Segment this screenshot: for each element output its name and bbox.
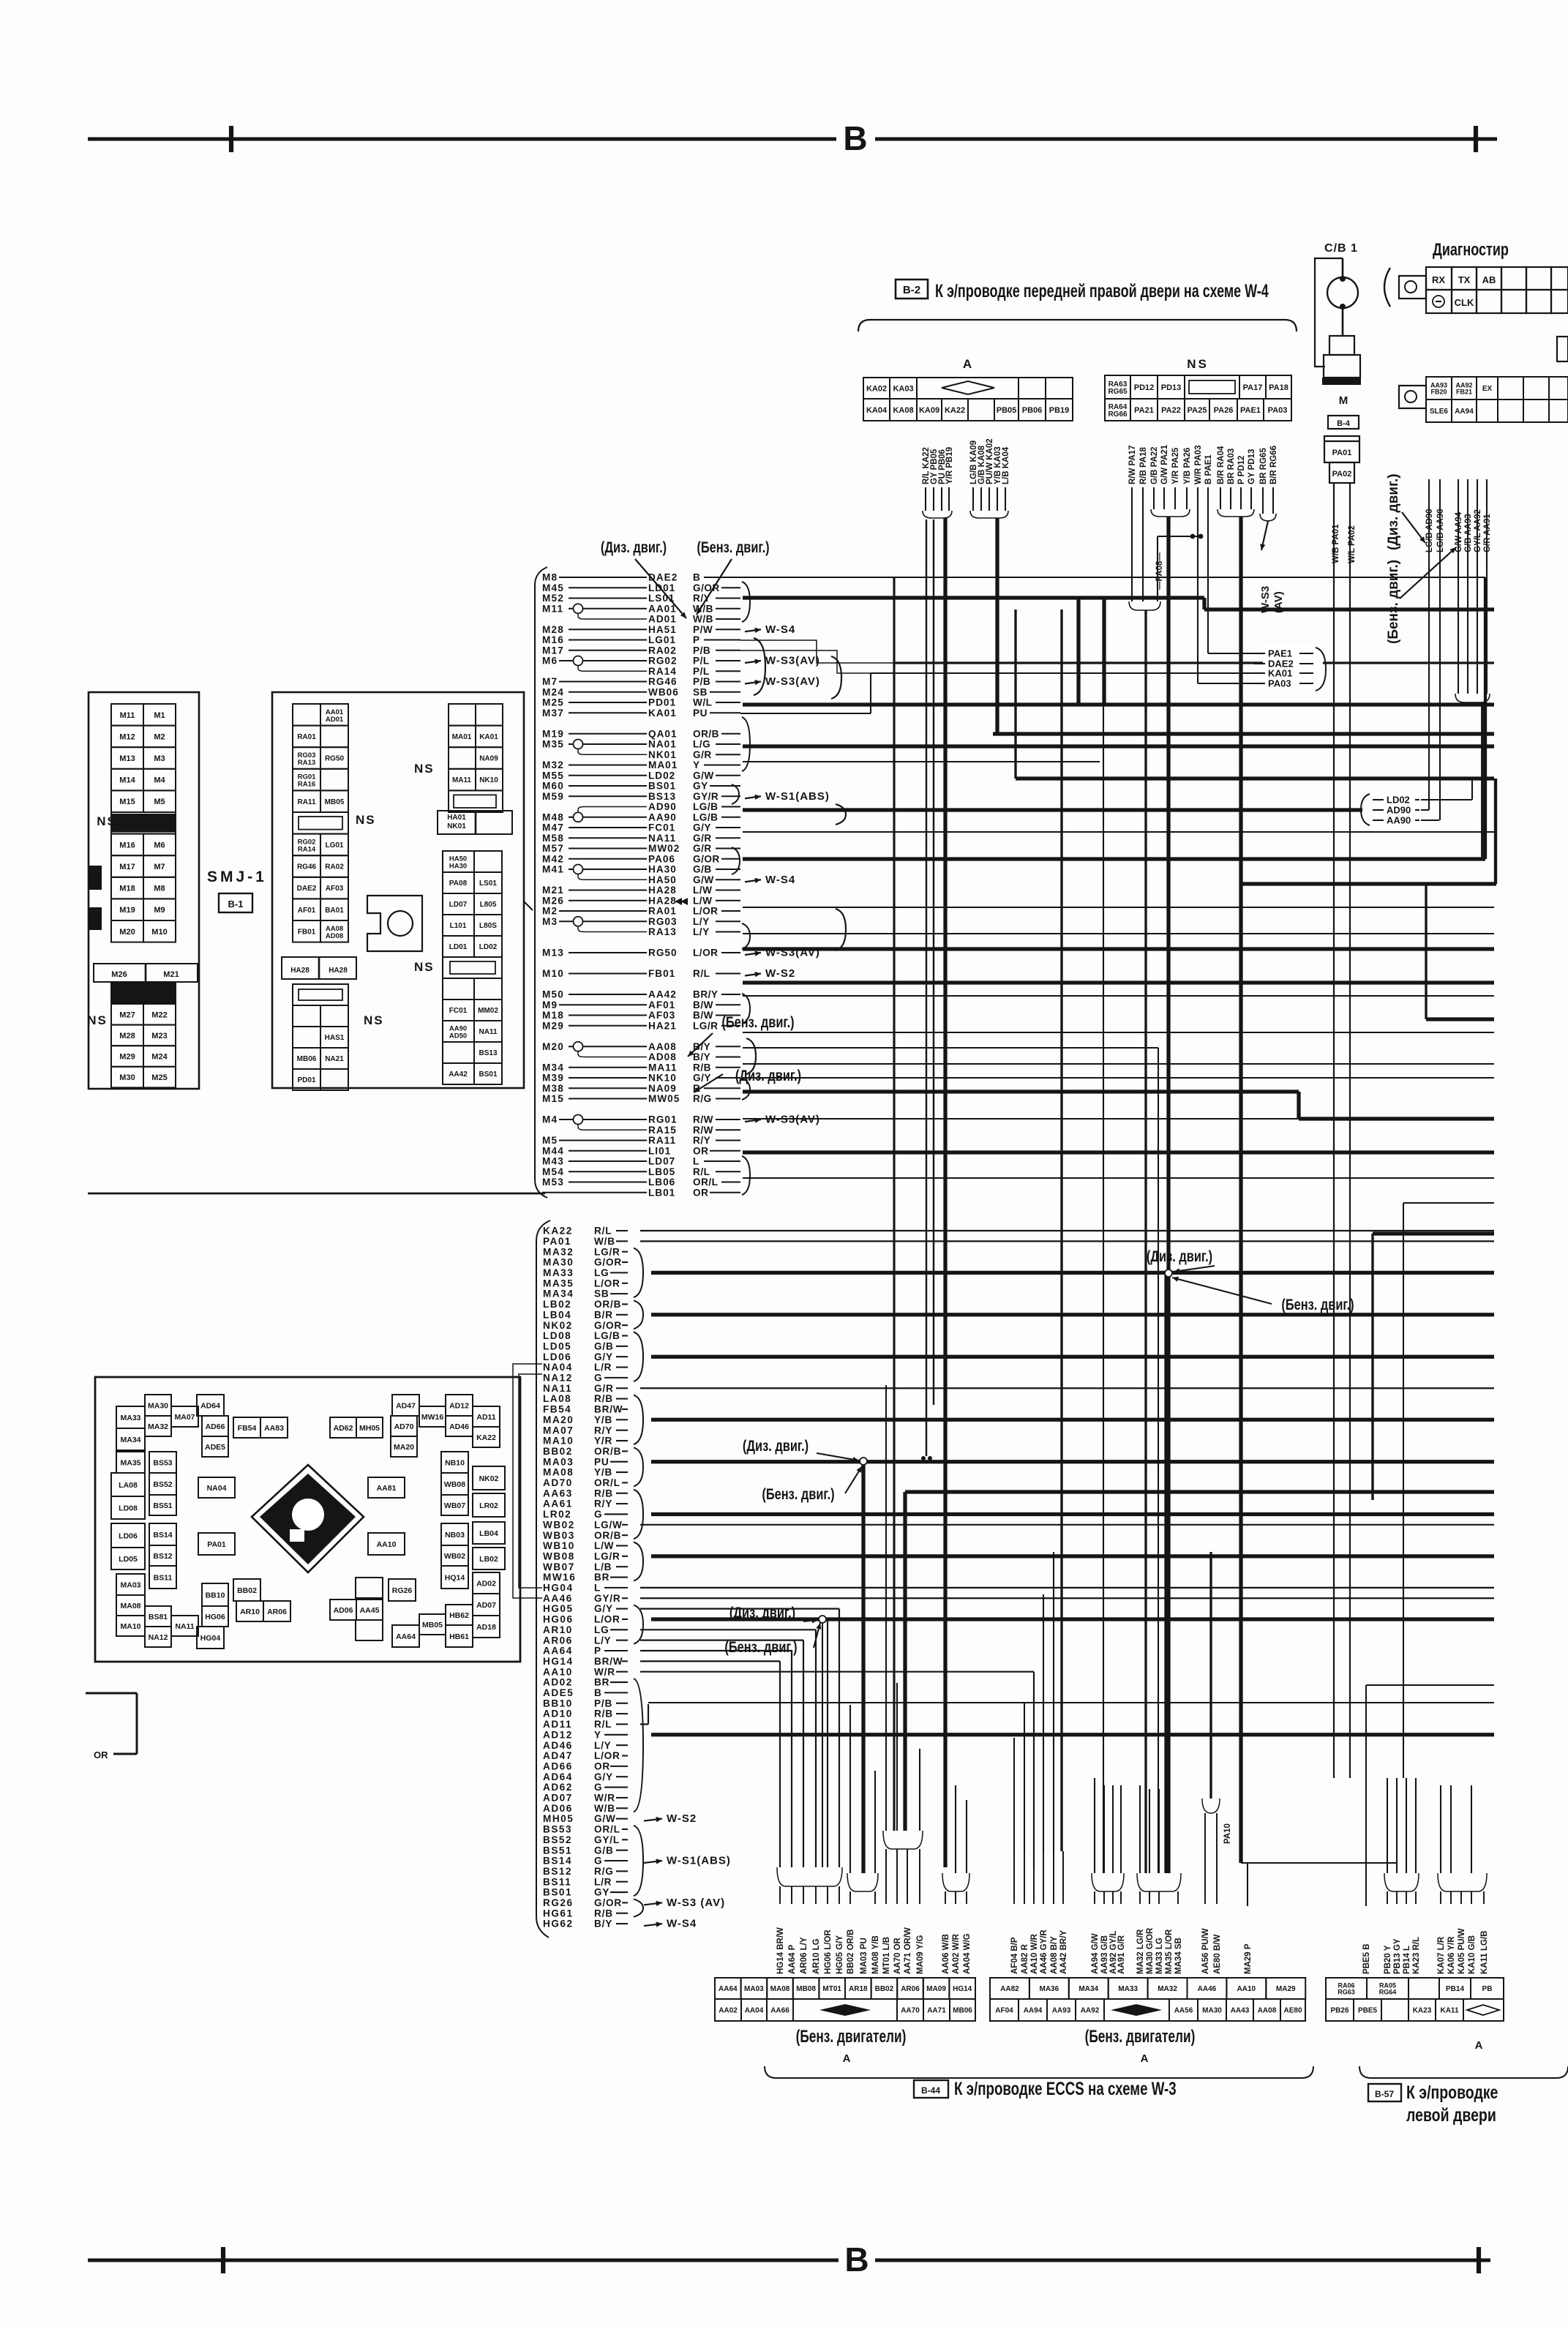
svg-text:A: A	[963, 357, 973, 371]
svg-text:MH05: MH05	[359, 1424, 380, 1433]
svg-text:B/R RG66: B/R RG66	[1269, 446, 1278, 484]
svg-text:HB61: HB61	[449, 1632, 469, 1641]
svg-text:M6: M6	[154, 841, 165, 850]
svg-text:BS52: BS52	[153, 1480, 172, 1489]
svg-text:R/B PA18: R/B PA18	[1139, 446, 1148, 484]
svg-text:AA56 PU/W: AA56 PU/W	[1201, 1928, 1210, 1974]
svg-text:BS14: BS14	[153, 1531, 172, 1539]
svg-text:M3: M3	[154, 754, 165, 763]
svg-text:AF03: AF03	[648, 1010, 675, 1021]
svg-text:M7: M7	[542, 676, 558, 687]
svg-text:KA22: KA22	[476, 1433, 496, 1442]
svg-text:M44: M44	[542, 1145, 564, 1156]
svg-text:LD02: LD02	[479, 943, 498, 951]
svg-text:AA56: AA56	[1174, 2007, 1193, 2015]
svg-text:L/Y: L/Y	[594, 1635, 612, 1646]
svg-text:MW02: MW02	[648, 843, 680, 854]
svg-text:MA03: MA03	[543, 1456, 574, 1467]
svg-text:M1: M1	[154, 711, 165, 720]
svg-text:QA01: QA01	[648, 728, 678, 739]
svg-text:HA28: HA28	[648, 895, 677, 906]
svg-text:GY: GY	[594, 1887, 609, 1898]
svg-text:OR/B: OR/B	[594, 1299, 621, 1310]
svg-text:PD01: PD01	[648, 697, 676, 708]
svg-text:LG01: LG01	[648, 634, 676, 645]
svg-text:MA08: MA08	[120, 1602, 140, 1610]
svg-text:AD10: AD10	[543, 1709, 573, 1719]
svg-text:G/B: G/B	[594, 1845, 614, 1856]
svg-text:M11: M11	[120, 711, 135, 720]
svg-text:W/B: W/B	[594, 1236, 615, 1247]
svg-text:OR: OR	[693, 1187, 708, 1198]
svg-text:AR06: AR06	[267, 1608, 287, 1616]
svg-text:M19: M19	[542, 728, 564, 739]
svg-text:MW05: MW05	[648, 1093, 680, 1104]
svg-text:G: G	[594, 1782, 602, 1793]
svg-text:KA06 Y/R: KA06 Y/R	[1447, 1936, 1456, 1974]
svg-text:M25: M25	[542, 697, 564, 708]
svg-text:MT01 L/B: MT01 L/B	[882, 1937, 891, 1974]
svg-text:M4: M4	[542, 1114, 558, 1125]
svg-text:PB14 L: PB14 L	[1403, 1946, 1411, 1974]
svg-text:—PA08—: —PA08—	[1155, 552, 1164, 590]
svg-text:PB: PB	[1482, 1985, 1493, 1993]
svg-text:RG66: RG66	[1108, 410, 1128, 419]
svg-text:L/OR: L/OR	[693, 948, 718, 959]
svg-text:EX: EX	[1482, 385, 1493, 393]
svg-text:PA25: PA25	[1188, 406, 1207, 415]
svg-text:L/OR: L/OR	[693, 906, 718, 917]
svg-text:PD13: PD13	[1161, 383, 1182, 392]
svg-text:M34: M34	[542, 1062, 564, 1073]
svg-text:NA21: NA21	[325, 1055, 344, 1063]
svg-text:MA33: MA33	[543, 1267, 574, 1278]
svg-text:(Диз. двиг.): (Диз. двиг.)	[735, 1067, 801, 1084]
svg-text:PA01: PA01	[207, 1540, 226, 1549]
svg-text:PB14: PB14	[1446, 1985, 1464, 1993]
svg-text:M18: M18	[119, 885, 135, 893]
svg-text:MA34 SB: MA34 SB	[1174, 1938, 1183, 1974]
svg-text:AA10: AA10	[1237, 1985, 1256, 1993]
svg-text:W-S2: W-S2	[667, 1812, 697, 1825]
svg-text:MA08 Y/B: MA08 Y/B	[871, 1935, 880, 1974]
svg-text:G/B PA22: G/B PA22	[1150, 446, 1159, 484]
svg-text:HA50: HA50	[648, 874, 677, 885]
svg-text:AR10 LG: AR10 LG	[812, 1938, 821, 1974]
svg-text:AA45: AA45	[360, 1606, 380, 1615]
svg-text:Y/R PA25: Y/R PA25	[1171, 447, 1180, 484]
svg-text:R/B: R/B	[594, 1393, 613, 1404]
svg-text:AD01: AD01	[326, 716, 344, 724]
svg-text:LA08: LA08	[543, 1393, 571, 1404]
svg-text:G/R: G/R	[594, 1383, 614, 1394]
svg-text:PB13 GY: PB13 GY	[1393, 1938, 1402, 1974]
svg-text:RG64: RG64	[1379, 1989, 1397, 1996]
svg-text:BS53: BS53	[543, 1824, 572, 1835]
svg-text:AD01: AD01	[648, 614, 677, 625]
svg-text:BB10: BB10	[543, 1698, 573, 1709]
svg-text:HA21: HA21	[648, 1020, 677, 1031]
svg-text:KA05 PU/W: KA05 PU/W	[1458, 1928, 1466, 1974]
svg-text:M17: M17	[119, 863, 135, 871]
svg-text:MA34: MA34	[1079, 1985, 1098, 1993]
svg-text:LS01: LS01	[648, 593, 675, 604]
svg-text:BS01: BS01	[648, 781, 676, 792]
svg-text:(Бенз. двигатели): (Бенз. двигатели)	[796, 2027, 907, 2046]
svg-text:PA01: PA01	[543, 1236, 571, 1247]
svg-text:Y/R PB19: Y/R PB19	[945, 447, 954, 484]
svg-text:NA11: NA11	[543, 1383, 572, 1394]
svg-text:M6: M6	[542, 656, 558, 667]
svg-text:KA23: KA23	[1413, 2007, 1432, 2015]
svg-text:NS: NS	[97, 814, 117, 828]
svg-text:KA01: KA01	[479, 733, 498, 741]
svg-text:AB: AB	[1482, 274, 1496, 285]
svg-text:BS01: BS01	[543, 1887, 572, 1898]
svg-text:AD62: AD62	[334, 1424, 353, 1433]
svg-text:BS53: BS53	[153, 1458, 172, 1467]
svg-text:G/R: G/R	[693, 843, 712, 854]
svg-text:Y/R: Y/R	[594, 1436, 612, 1447]
svg-text:LG/B: LG/B	[693, 811, 718, 822]
svg-text:HA28: HA28	[290, 967, 310, 975]
svg-text:G/B: G/B	[693, 864, 712, 875]
svg-text:SMJ-1: SMJ-1	[207, 869, 267, 885]
svg-text:OR: OR	[594, 1760, 610, 1771]
svg-text:PU: PU	[693, 708, 708, 719]
svg-text:LG/R: LG/R	[594, 1550, 620, 1561]
svg-text:AD90: AD90	[1387, 805, 1411, 816]
svg-text:Y/B: Y/B	[594, 1467, 612, 1478]
svg-text:LD07: LD07	[648, 1156, 675, 1167]
svg-text:AA82: AA82	[1000, 1985, 1019, 1993]
svg-text:AF01: AF01	[648, 1000, 675, 1010]
svg-text:G/OR: G/OR	[693, 853, 720, 864]
svg-text:AA46: AA46	[1198, 1985, 1217, 1993]
svg-text:PB26: PB26	[1330, 2007, 1348, 2015]
svg-text:AD90: AD90	[648, 801, 677, 812]
svg-text:RG26: RG26	[392, 1586, 413, 1595]
svg-text:M27: M27	[119, 1010, 135, 1019]
svg-text:MA35: MA35	[543, 1278, 574, 1289]
svg-text:NA04: NA04	[207, 1484, 227, 1493]
svg-text:MA09 Y/G: MA09 Y/G	[916, 1935, 925, 1974]
svg-text:PA03: PA03	[1268, 406, 1288, 415]
svg-text:NA12: NA12	[149, 1633, 168, 1642]
svg-text:HAS1: HAS1	[325, 1034, 345, 1042]
svg-text:RG50: RG50	[325, 755, 345, 763]
svg-text:AA70: AA70	[901, 2007, 920, 2015]
svg-text:HQ14: HQ14	[445, 1573, 465, 1582]
svg-text:GY: GY	[693, 781, 708, 792]
svg-text:К э/проводке: К э/проводке	[1406, 2082, 1498, 2103]
svg-text:AE80: AE80	[1283, 2007, 1302, 2015]
svg-text:MA32 LG/R: MA32 LG/R	[1136, 1929, 1145, 1974]
svg-text:LD06: LD06	[119, 1531, 138, 1540]
svg-text:AA46 GY/R: AA46 GY/R	[1040, 1929, 1049, 1974]
svg-text:A: A	[1475, 2039, 1483, 2052]
svg-text:MA30: MA30	[148, 1401, 168, 1410]
svg-text:AA01: AA01	[648, 603, 677, 614]
svg-text:B-2: B-2	[903, 284, 920, 296]
svg-text:MA08: MA08	[543, 1467, 574, 1478]
svg-text:AA42: AA42	[648, 989, 677, 1000]
svg-text:MA01: MA01	[452, 733, 472, 741]
svg-text:W/L: W/L	[693, 697, 712, 708]
svg-text:M20: M20	[542, 1041, 564, 1052]
svg-text:(Бенз. двиг.): (Бенз. двиг.)	[697, 539, 769, 555]
svg-text:W-S3(AV): W-S3(AV)	[765, 655, 820, 667]
svg-text:AA94: AA94	[1024, 2007, 1043, 2015]
svg-text:M53: M53	[542, 1177, 564, 1188]
svg-text:W-S4: W-S4	[667, 1918, 697, 1930]
svg-text:G/R: G/R	[693, 833, 712, 844]
svg-text:(Бенз. двиг.): (Бенз. двиг.)	[721, 1013, 794, 1030]
svg-text:B-44: B-44	[921, 2085, 940, 2096]
svg-text:HG04: HG04	[200, 1634, 221, 1643]
svg-text:NA09: NA09	[648, 1083, 677, 1094]
svg-text:PA17: PA17	[1243, 383, 1263, 392]
svg-text:RA13: RA13	[648, 926, 677, 937]
svg-text:NS: NS	[1187, 357, 1209, 371]
svg-text:G/W: G/W	[693, 770, 714, 781]
svg-text:M13: M13	[542, 948, 564, 959]
svg-text:PD01: PD01	[297, 1076, 315, 1084]
svg-text:KA08: KA08	[893, 406, 913, 415]
svg-text:AR06 L/Y: AR06 L/Y	[800, 1937, 809, 1974]
svg-text:B: B	[693, 572, 700, 583]
svg-text:L/R: L/R	[594, 1876, 612, 1887]
svg-text:M24: M24	[542, 686, 564, 697]
svg-text:AD70: AD70	[543, 1477, 573, 1488]
svg-text:MT01: MT01	[822, 1985, 841, 1993]
svg-text:левой двери: левой двери	[1406, 2105, 1496, 2126]
svg-text:MA10: MA10	[543, 1436, 574, 1447]
svg-text:G/OR: G/OR	[594, 1897, 622, 1908]
svg-text:LB02: LB02	[479, 1555, 498, 1564]
svg-text:BB10: BB10	[206, 1591, 225, 1599]
svg-text:M: M	[1339, 394, 1348, 407]
svg-text:RA01: RA01	[297, 733, 316, 741]
svg-text:W/B: W/B	[594, 1803, 615, 1814]
svg-text:(Диз. двиг.): (Диз. двиг.)	[743, 1437, 809, 1454]
svg-text:M48: M48	[542, 811, 564, 822]
svg-text:L/W: L/W	[693, 895, 712, 906]
svg-text:BR/W: BR/W	[594, 1404, 623, 1415]
svg-text:LG/R: LG/R	[594, 1246, 620, 1257]
svg-text:AA10 W/R: AA10 W/R	[1030, 1933, 1039, 1974]
svg-text:HA30: HA30	[648, 864, 677, 875]
svg-text:W-S2: W-S2	[765, 967, 795, 980]
svg-text:AR06: AR06	[901, 1985, 920, 1993]
svg-text:AA10: AA10	[377, 1540, 397, 1549]
svg-text:M32: M32	[542, 760, 564, 770]
svg-text:MA11: MA11	[648, 1062, 678, 1073]
svg-text:MW16: MW16	[543, 1572, 576, 1583]
svg-text:LG: LG	[594, 1624, 609, 1635]
svg-text:RG26: RG26	[543, 1897, 574, 1908]
svg-text:AA42: AA42	[449, 1070, 468, 1079]
svg-text:BR/W: BR/W	[594, 1656, 623, 1667]
svg-text:L/OR: L/OR	[594, 1750, 620, 1761]
svg-text:MA01: MA01	[648, 760, 678, 770]
svg-text:OR/L: OR/L	[693, 1177, 718, 1188]
svg-text:TX: TX	[1458, 274, 1471, 285]
svg-text:HA28: HA28	[648, 885, 677, 896]
svg-text:R/L: R/L	[594, 1226, 612, 1237]
svg-text:WB06: WB06	[648, 686, 679, 697]
svg-text:AA08: AA08	[648, 1041, 677, 1052]
svg-text:PA18: PA18	[1269, 383, 1288, 392]
svg-text:SB: SB	[693, 686, 708, 697]
svg-text:B-57: B-57	[1375, 2089, 1394, 2099]
svg-text:AD02: AD02	[476, 1579, 496, 1588]
svg-text:NA01: NA01	[648, 739, 677, 750]
svg-text:WB07: WB07	[444, 1501, 465, 1510]
svg-text:R/W: R/W	[693, 1125, 713, 1136]
svg-text:MA03: MA03	[120, 1580, 140, 1589]
svg-text:LS01: LS01	[479, 880, 497, 888]
svg-text:MA07: MA07	[543, 1425, 574, 1436]
svg-text:R/L: R/L	[693, 1166, 710, 1177]
svg-text:M28: M28	[119, 1032, 135, 1040]
svg-text:R/Y: R/Y	[594, 1425, 612, 1436]
svg-text:NS: NS	[364, 1013, 384, 1027]
svg-text:P/B: P/B	[693, 676, 710, 687]
svg-text:LD05: LD05	[119, 1555, 138, 1564]
svg-text:NA11: NA11	[479, 1028, 497, 1036]
svg-text:M57: M57	[542, 843, 564, 854]
svg-text:RA01: RA01	[648, 906, 677, 917]
svg-text:M22: M22	[151, 1010, 167, 1019]
svg-text:M5: M5	[542, 1135, 558, 1146]
svg-text:AD02: AD02	[543, 1677, 573, 1688]
svg-text:M15: M15	[542, 1093, 564, 1104]
svg-text:W/B: W/B	[693, 614, 713, 625]
svg-text:MA29 P: MA29 P	[1244, 1943, 1253, 1974]
svg-text:AD06: AD06	[334, 1606, 353, 1615]
svg-text:NK01: NK01	[648, 749, 677, 760]
svg-text:M43: M43	[542, 1156, 564, 1167]
svg-text:OR/B: OR/B	[693, 728, 719, 739]
svg-text:BS81: BS81	[149, 1613, 168, 1621]
svg-text:PA10: PA10	[1223, 1823, 1232, 1844]
svg-text:M59: M59	[542, 791, 564, 802]
svg-text:PA03: PA03	[1268, 678, 1291, 689]
svg-text:M26: M26	[111, 970, 127, 979]
svg-text:BR: BR	[594, 1677, 609, 1688]
svg-text:AR06: AR06	[543, 1635, 573, 1646]
svg-text:MA29: MA29	[1276, 1985, 1296, 1993]
svg-text:AD46: AD46	[449, 1422, 469, 1431]
svg-text:W-S3 (AV): W-S3 (AV)	[667, 1897, 725, 1909]
svg-text:MA20: MA20	[543, 1414, 574, 1425]
svg-text:BS51: BS51	[153, 1501, 172, 1510]
svg-text:AA06 W/B: AA06 W/B	[942, 1934, 950, 1974]
svg-text:AD70: AD70	[394, 1422, 414, 1431]
svg-text:B/W: B/W	[693, 1000, 713, 1010]
svg-text:GY/R: GY/R	[594, 1593, 620, 1604]
svg-text:HG06: HG06	[543, 1614, 574, 1625]
svg-text:HG14 BR/W: HG14 BR/W	[776, 1927, 785, 1974]
svg-text:BR RA03: BR RA03	[1227, 449, 1236, 484]
svg-text:SLE6: SLE6	[1430, 408, 1448, 416]
svg-text:MA33: MA33	[120, 1414, 140, 1422]
svg-text:B-4: B-4	[1337, 419, 1351, 428]
svg-text:MB06: MB06	[297, 1055, 317, 1063]
svg-text:NS: NS	[356, 813, 376, 827]
svg-text:BS52: BS52	[543, 1834, 572, 1845]
svg-text:LD01: LD01	[648, 582, 675, 593]
svg-text:G/OR: G/OR	[594, 1320, 622, 1331]
svg-text:M35: M35	[542, 739, 564, 750]
svg-text:R/G: R/G	[693, 1093, 712, 1104]
svg-text:LG/R: LG/R	[693, 1020, 718, 1031]
svg-text:AA02: AA02	[719, 2007, 738, 2015]
svg-text:G/Y: G/Y	[594, 1771, 613, 1782]
svg-text:FB01: FB01	[648, 968, 675, 979]
svg-text:NK01: NK01	[447, 822, 466, 830]
svg-text:AA66: AA66	[770, 2007, 789, 2015]
svg-text:PA06: PA06	[648, 853, 675, 864]
svg-text:W-S1(ABS): W-S1(ABS)	[667, 1855, 731, 1867]
svg-text:PBE5 B: PBE5 B	[1362, 1943, 1371, 1974]
svg-text:AA46: AA46	[543, 1593, 573, 1604]
svg-text:PAE1: PAE1	[1268, 648, 1292, 659]
svg-text:Y: Y	[594, 1729, 601, 1740]
svg-text:AR10: AR10	[240, 1608, 260, 1616]
svg-text:WB08: WB08	[543, 1550, 575, 1561]
svg-text:M28: M28	[542, 624, 564, 635]
svg-text:KA11 LG/B: KA11 LG/B	[1480, 1931, 1489, 1974]
svg-text:R/B: R/B	[594, 1908, 613, 1919]
svg-text:MA30 G/OR: MA30 G/OR	[1146, 1927, 1155, 1974]
svg-text:W-S1(ABS): W-S1(ABS)	[765, 790, 830, 803]
svg-text:AA70 OR: AA70 OR	[893, 1937, 902, 1974]
svg-text:AA83: AA83	[264, 1424, 284, 1433]
svg-text:M26: M26	[542, 895, 564, 906]
svg-text:AA81: AA81	[377, 1484, 397, 1493]
svg-text:P/B: P/B	[594, 1698, 612, 1709]
svg-text:AA64 P: AA64 P	[788, 1944, 797, 1974]
svg-text:(Диз. двиг.): (Диз. двиг.)	[1147, 1248, 1212, 1264]
svg-text:RG01: RG01	[648, 1114, 678, 1125]
svg-text:L80S: L80S	[479, 922, 497, 930]
svg-text:AA91 G/R: AA91 G/R	[1117, 1935, 1126, 1974]
svg-text:MM02: MM02	[478, 1007, 498, 1015]
svg-text:W-S4: W-S4	[765, 623, 795, 636]
svg-text:R/B: R/B	[594, 1709, 613, 1719]
svg-text:M3: M3	[542, 916, 558, 927]
svg-text:BR RG65: BR RG65	[1259, 448, 1268, 484]
svg-text:W/B PA01: W/B PA01	[1332, 524, 1340, 563]
svg-text:PU: PU	[594, 1456, 609, 1467]
svg-text:LB04: LB04	[479, 1529, 498, 1538]
svg-text:WB08: WB08	[444, 1480, 465, 1489]
svg-text:BB02: BB02	[543, 1446, 573, 1457]
svg-text:W-S3(AV): W-S3(AV)	[765, 1114, 820, 1126]
svg-text:MA32: MA32	[1158, 1985, 1177, 1993]
svg-text:Y/B: Y/B	[594, 1414, 612, 1425]
svg-text:W/R PA03: W/R PA03	[1194, 446, 1203, 484]
svg-text:R/G: R/G	[594, 1866, 614, 1877]
svg-text:BS11: BS11	[543, 1876, 571, 1887]
svg-text:B: B	[594, 1687, 602, 1698]
svg-text:RG50: RG50	[648, 948, 678, 959]
svg-text:M30: M30	[119, 1073, 135, 1082]
svg-text:AA43: AA43	[1231, 2007, 1250, 2015]
svg-text:LG/W: LG/W	[594, 1519, 623, 1530]
